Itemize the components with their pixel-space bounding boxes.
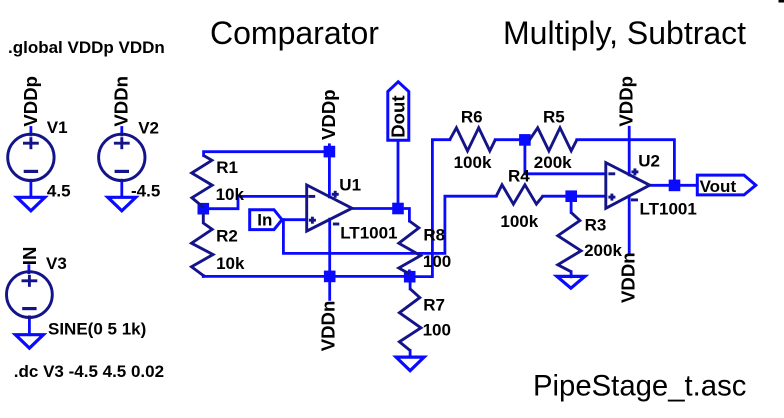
svg-text:Vout: Vout — [700, 177, 737, 196]
corner artifact — [779, 0, 784, 3]
svg-text:Dout: Dout — [387, 95, 408, 137]
svg-text:4.5: 4.5 — [47, 181, 71, 200]
svg-text:100k: 100k — [454, 153, 492, 172]
wire R2 bottom stub — [202, 274, 205, 278]
wire U1 V+ vertical — [328, 145, 331, 197]
resistor R5 — [530, 128, 577, 151]
port flag Dout — [388, 82, 409, 141]
wire V2 top pin — [120, 128, 123, 135]
svg-text:V3: V3 — [46, 254, 67, 273]
ground under R3 — [557, 276, 585, 288]
svg-text:In: In — [257, 211, 272, 230]
wire U2 output to Vout — [650, 184, 698, 187]
ground under V2 — [108, 197, 136, 211]
voltage source V2 — [99, 134, 145, 180]
junction J2 — [392, 203, 404, 215]
op-amp U1 — [307, 185, 352, 231]
svg-text:100: 100 — [423, 252, 451, 271]
wire V3 top pin — [27, 266, 30, 273]
wire U2 V+ vertical — [628, 127, 631, 175]
svg-text:V1: V1 — [47, 118, 68, 137]
wire V1 top pin — [29, 128, 32, 135]
svg-text:100k: 100k — [500, 212, 538, 231]
wire V3 bottom pin — [28, 317, 31, 335]
resistor R1 — [192, 156, 213, 208]
wire U1 output to J3 — [352, 207, 398, 210]
wire V2 bottom pin — [120, 180, 123, 197]
voltage source V1 — [8, 134, 54, 180]
svg-text:200k: 200k — [584, 241, 622, 260]
wire R4 to U2 plus input — [543, 195, 606, 198]
port flag Vout — [697, 175, 756, 195]
wire In node down-right to R4 — [283, 196, 496, 253]
wire U1 Vminus vertical — [328, 219, 331, 299]
wire J7 to R3 top — [570, 196, 573, 212]
junction J5 R8/R7 — [519, 134, 531, 146]
wire J2 to U1 minus input — [203, 196, 306, 208]
wire R8 top stub — [408, 271, 411, 277]
svg-text:U2: U2 — [638, 151, 660, 170]
svg-text:VDDn: VDDn — [618, 252, 639, 303]
svg-text:V2: V2 — [138, 118, 159, 137]
svg-text:R1: R1 — [216, 158, 238, 177]
resistor R4 — [496, 185, 543, 204]
wire bottom rail R2 to J5 — [203, 275, 409, 278]
wire J3 to R8 top — [398, 209, 409, 222]
wire R6 to J6 — [495, 138, 529, 141]
svg-text:VDDn: VDDn — [111, 76, 132, 127]
wire In flag to U1 plus input — [282, 218, 307, 221]
junction J3 U1 out — [324, 271, 336, 283]
resistor R2 — [192, 214, 214, 276]
svg-text:R4: R4 — [508, 167, 530, 186]
wire R7 bottom to ground — [409, 351, 412, 358]
wire top rail R1 to U1 V+ — [204, 152, 330, 156]
junction J6 R6/R5 — [565, 190, 577, 202]
wire U2 Vminus vertical — [628, 196, 631, 253]
svg-text:LT1001: LT1001 — [340, 224, 397, 243]
junction J7 R4/R3 — [669, 180, 681, 192]
svg-text:R7: R7 — [423, 296, 445, 315]
svg-text:Comparator: Comparator — [210, 15, 379, 51]
svg-text:VDDn: VDDn — [317, 301, 338, 352]
svg-text:100: 100 — [423, 321, 451, 340]
wire J5 to R6 left — [410, 140, 450, 277]
wire J6 to U2 minus input — [525, 140, 606, 174]
svg-text:10k: 10k — [216, 185, 245, 204]
svg-text:-4.5: -4.5 — [131, 181, 160, 200]
svg-text:10k: 10k — [216, 254, 245, 273]
svg-text:200k: 200k — [534, 153, 572, 172]
svg-text:LT1001: LT1001 — [640, 199, 697, 218]
svg-text:VDDp: VDDp — [20, 76, 41, 127]
ground under V1 — [15, 197, 585, 370]
wire V1 bottom pin — [29, 180, 32, 197]
svg-text:U1: U1 — [339, 175, 361, 194]
svg-text:R5: R5 — [543, 108, 565, 127]
svg-text:R8: R8 — [423, 226, 445, 245]
junction J1 top rail — [198, 203, 210, 215]
svg-text:IN: IN — [19, 247, 40, 266]
wire R5 right to U2 output junction — [577, 140, 675, 186]
svg-text:R3: R3 — [585, 216, 607, 235]
svg-text:R6: R6 — [461, 108, 483, 127]
svg-text:PipeStage_t.asc: PipeStage_t.asc — [533, 369, 746, 402]
ground under R7 — [396, 357, 424, 371]
junction J2 R1/R2 — [198, 134, 681, 282]
svg-text:VDDp: VDDp — [615, 76, 636, 127]
resistor R8 — [399, 221, 421, 274]
svg-text:R2: R2 — [216, 227, 238, 246]
wire Dout vertical — [397, 141, 400, 209]
svg-text:SINE(0 5 1k): SINE(0 5 1k) — [48, 319, 146, 338]
wire R7 top stub — [409, 277, 412, 289]
svg-text:.global VDDp VDDn: .global VDDp VDDn — [8, 38, 165, 57]
resistor R6 — [450, 128, 496, 151]
svg-text:VDDp: VDDp — [318, 89, 339, 140]
resistor R7 — [399, 289, 421, 351]
port flag In — [250, 82, 756, 230]
voltage source V3 — [7, 272, 53, 318]
junction J4 bottom rail — [404, 271, 416, 283]
resistor R3 — [558, 212, 581, 271]
op-amp U2 — [606, 163, 650, 209]
wire R3 bottom to ground — [570, 272, 573, 277]
ground under V3 — [15, 335, 43, 349]
svg-text:Multiply, Subtract: Multiply, Subtract — [503, 15, 746, 51]
svg-text:.dc V3 -4.5 4.5 0.02: .dc V3 -4.5 4.5 0.02 — [14, 362, 164, 381]
